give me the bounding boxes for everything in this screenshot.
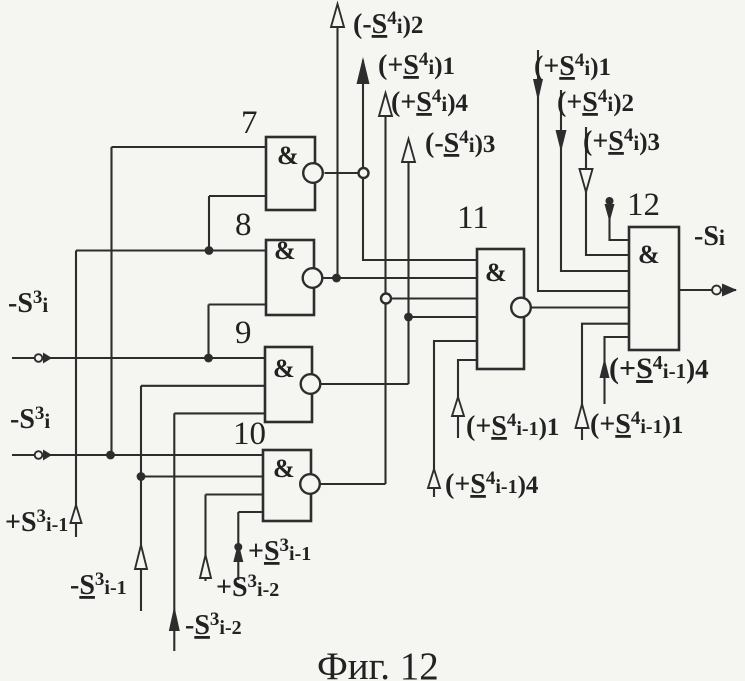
arrowhead gate 12 output: [722, 284, 737, 297]
wire gate 10 input 4 horizontal: [238, 511, 263, 513]
svg-text:(+S4i)4: (+S4i)4: [391, 86, 469, 118]
wire gate 10 input 2 horizontal from -S3i-1 riser: [141, 475, 263, 477]
wire (+S4i-1)1 riser to gate 11 input 6: [458, 360, 477, 438]
junction gate 8 input 2 on -S3i line 1: [204, 354, 213, 363]
wire (+S4i)4 vertical upper part: [384, 97, 386, 294]
wire -S3i input line 1 to gate 9: [12, 357, 265, 359]
wire (+S4i)1 vertical up from node: [362, 60, 364, 168]
svg-text:11: 11: [457, 200, 489, 236]
arrowhead -S3i line 1: [43, 353, 52, 364]
wire (+S4i)2 drop to gate 12 input 3: [561, 90, 629, 271]
open arrowhead (+S4i-1)4 mid up: [428, 469, 440, 488]
wire (-S4i)2 vertical from gate 8 output junction: [336, 8, 338, 278]
junction (-S4i)2 on gate 8 output: [332, 274, 341, 283]
open arrowhead (+S4i)3 into gate 12 down: [580, 169, 593, 192]
svg-text:(+S4i)2: (+S4i)2: [557, 86, 634, 118]
wire gate 11 output to gate 12 input 5: [532, 306, 630, 308]
svg-text:-Si: -Si: [694, 221, 725, 252]
wire gate 12 output arrow stub: [721, 289, 736, 291]
terminator circle -S3i line 2: [35, 451, 43, 459]
wire short drop to gate 12 input 1: [610, 200, 630, 240]
wire gate 7 input 1 vertical from -S3i line 2: [110, 147, 112, 455]
wire gate 7 output to node circle: [325, 172, 359, 174]
terminator circle gate 12 output: [712, 286, 721, 295]
junction dot on +S3i-1 second riser: [234, 543, 242, 551]
arrowhead -S3i-2 up: [169, 606, 180, 631]
wire (+S4i-1)4 right riser to gate 12 input 7: [605, 337, 630, 404]
gate 9 output bubble: [301, 374, 321, 394]
svg-text:&: &: [638, 240, 660, 269]
wire gate 11 input 3 horizontal from tap circle: [391, 297, 477, 299]
open arrowhead +S3i-1 left up: [71, 505, 82, 523]
wire gate 11 input 4 horizontal from junction: [409, 316, 478, 318]
wire +S3i-2 vertical riser: [204, 495, 206, 582]
svg-text:Фиг. 12: Фиг. 12: [317, 645, 439, 681]
svg-text:(+S4i)3: (+S4i)3: [583, 125, 660, 157]
wire node down to gate 11 input 1: [363, 178, 477, 260]
open arrowhead -S3i-1 up: [135, 545, 147, 569]
svg-text:&: &: [277, 141, 299, 170]
wire gate 8 input 2 horizontal: [209, 303, 267, 305]
wire (+S4i)1 drop to gate 12 input 4: [538, 50, 629, 291]
wire -S3i-2 vertical riser: [173, 413, 175, 651]
svg-text:8: 8: [235, 207, 252, 243]
wire gate 9 output horizontal: [322, 383, 409, 385]
arrowhead (+S4i-1)4 right riser up: [600, 358, 610, 378]
wire +S3i-1 second vertical riser: [237, 512, 239, 580]
wire (+S4i-1)4 riser to gate 11 input 5: [434, 341, 477, 497]
wire (-S4i)3 vertical from gate 9 output: [407, 143, 409, 384]
open arrowhead (+S4i-1)1 mid up: [452, 397, 464, 416]
svg-text:-S3i: -S3i: [10, 403, 50, 435]
gate 9 box: [265, 347, 312, 422]
gate 7 output bubble: [303, 163, 323, 183]
gate 11 box: [477, 249, 524, 369]
wire +S3i-1 horizontal to gate 8 input 1: [76, 249, 266, 251]
gate 10 output bubble: [300, 474, 320, 494]
svg-text:12: 12: [627, 187, 660, 223]
gate 12 box: [629, 227, 679, 350]
wire gate 10 output horizontal: [321, 483, 386, 485]
arrowhead (+S4i)1 into gate 12 down: [533, 79, 543, 101]
wire gate 7 input 2 horizontal: [209, 195, 266, 197]
junction gate 7 input 1 on -S3i line 2: [106, 451, 115, 460]
gate 8 box: [266, 240, 314, 315]
wire (+S4i)3 drop to gate 12 input 2: [586, 127, 629, 255]
open arrowhead (+S4i)4 up: [379, 93, 392, 116]
svg-text:&: &: [273, 454, 295, 483]
svg-text:7: 7: [241, 105, 258, 141]
svg-text:&: &: [274, 236, 296, 265]
wire gate 9 input 3 horizontal: [174, 412, 265, 414]
node circle tap gate 11 input 3: [381, 294, 391, 304]
junction gate 7 input 2 on +S3i-1: [205, 246, 214, 255]
wire +S3i-1 vertical riser: [75, 251, 77, 538]
open arrowhead (-S4i)3 up: [402, 139, 415, 162]
arrowhead -S3i line 2: [43, 450, 52, 461]
wire gate 10 input 3 horizontal: [206, 493, 264, 495]
wire (+S4i)4 vertical lower part to gate 10 output: [384, 304, 386, 485]
svg-text:-S3i: -S3i: [8, 287, 48, 319]
wire gate 12 output: [679, 289, 712, 291]
wire gate 8 output to gate 11 input 2: [324, 277, 478, 279]
gate 7 box: [266, 137, 315, 210]
svg-text:9: 9: [235, 315, 252, 351]
gate 8 output bubble: [303, 268, 323, 288]
svg-text:&: &: [485, 258, 507, 287]
svg-text:(+S4i)1: (+S4i)1: [378, 49, 455, 81]
terminator circle -S3i line 1: [35, 354, 43, 362]
arrowhead (+S4i)1 output up: [357, 57, 370, 84]
open arrowhead (-S4i)2 up: [331, 4, 344, 27]
svg-text:&: &: [273, 354, 295, 383]
node circle on gate 7 output: [359, 168, 369, 178]
junction dot above gate 12 input 1: [606, 197, 614, 205]
gate 11 output bubble: [511, 298, 531, 318]
junction gate 10 input 2 on -S3i-1 riser: [137, 472, 146, 481]
arrowhead gate 12 input 1 down: [605, 204, 615, 222]
wire gate 9 input 2 horizontal: [141, 385, 265, 387]
arrowhead +S3i-1 second riser up: [233, 542, 243, 562]
wire -S3i-1 vertical riser: [140, 386, 142, 611]
gate 10 box: [263, 450, 311, 521]
arrowhead (+S4i)2 into gate 12 down: [556, 130, 567, 152]
svg-text:10: 10: [233, 416, 266, 452]
open arrowhead (+S4i-1)1 right up: [576, 404, 589, 428]
junction (-S4i)3 on gate 11 input 4: [404, 313, 413, 322]
open arrowhead +S3i-2 up: [200, 555, 211, 578]
wire gate 8 input 2 vertical from -S3i line 1: [207, 305, 209, 359]
wire -S3i input line 2 to gate 10: [12, 454, 263, 456]
svg-text:(+S4i)1: (+S4i)1: [534, 50, 611, 82]
wire (+S4i-1)1 right riser to gate 12 input 6: [582, 324, 629, 440]
wire gate 7 input 1 horizontal: [112, 146, 267, 148]
wire gate 7 input 2 vertical from +S3i-1: [208, 196, 210, 251]
